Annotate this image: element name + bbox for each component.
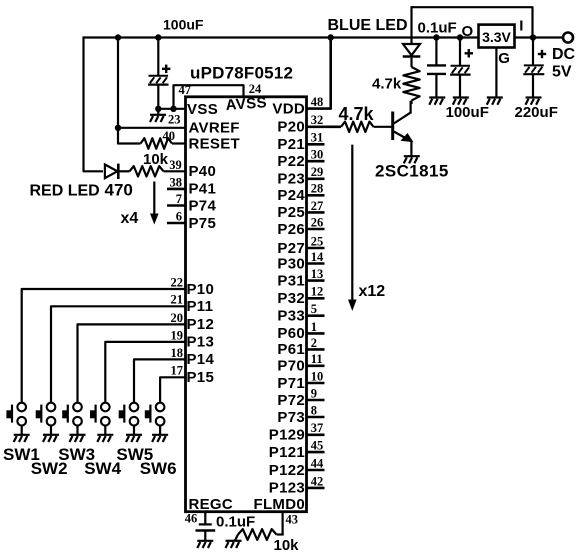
pin 5 label xyxy=(311,302,317,316)
svg-text:P61: P61 xyxy=(277,341,305,358)
svg-text:AVSS: AVSS xyxy=(225,94,267,114)
pin stub P21 (31) xyxy=(307,143,325,146)
wire C1 top lead xyxy=(157,38,159,77)
pin 19 label xyxy=(171,328,184,342)
svg-text:P13: P13 xyxy=(187,334,215,351)
svg-text:40: 40 xyxy=(163,129,176,143)
ground C2 xyxy=(429,98,445,105)
label I xyxy=(519,18,523,35)
wire P15 to SW xyxy=(160,377,185,403)
ground SW5 xyxy=(126,435,142,442)
svg-text:23: 23 xyxy=(168,113,181,127)
switch SW6 xyxy=(145,403,165,435)
svg-text:P121: P121 xyxy=(269,444,305,461)
label P74 xyxy=(189,197,217,214)
switch SW3 xyxy=(62,403,82,435)
svg-text:P24: P24 xyxy=(277,187,305,204)
label AVSS xyxy=(225,94,267,114)
pin stub P26 (26) xyxy=(307,228,325,231)
pin 9 label xyxy=(311,386,317,400)
svg-text:P27: P27 xyxy=(277,240,305,257)
label P14 xyxy=(187,351,215,368)
wire rail left drop xyxy=(84,36,104,171)
svg-text:P129: P129 xyxy=(269,427,305,444)
label P41 xyxy=(189,181,217,198)
svg-text:DC: DC xyxy=(552,46,576,63)
pin 18 label xyxy=(171,346,184,360)
svg-text:P32: P32 xyxy=(277,290,305,307)
svg-text:0.1uF: 0.1uF xyxy=(418,20,457,37)
label RESET xyxy=(189,135,241,152)
svg-text:48: 48 xyxy=(311,95,324,109)
pin stub P31 (13) xyxy=(307,279,325,282)
wire 5V to DC jack xyxy=(515,36,563,38)
svg-text:BLUE LED: BLUE LED xyxy=(328,17,408,34)
label P30 xyxy=(277,255,305,272)
svg-text:P22: P22 xyxy=(277,153,305,170)
capacitor C3 100uF polarized xyxy=(450,66,471,75)
wire P11 to SW xyxy=(51,306,186,403)
label P24 xyxy=(277,187,305,204)
svg-text:P31: P31 xyxy=(277,272,305,289)
IC U1 uPD78F0512 body xyxy=(186,97,307,512)
wire P13 to SW xyxy=(105,342,185,403)
svg-text:4.7k: 4.7k xyxy=(339,104,375,124)
wire C2 bottom lead xyxy=(435,74,437,97)
svg-text:P73: P73 xyxy=(277,409,305,426)
svg-text:9: 9 xyxy=(311,386,317,400)
pin stub P129 (37) xyxy=(307,433,325,436)
ground C1/VSS xyxy=(150,115,166,122)
label 0.1uF bottom xyxy=(216,513,255,530)
wire C3 bottom lead xyxy=(459,75,461,98)
svg-text:19: 19 xyxy=(171,328,184,342)
svg-text:220uF: 220uF xyxy=(515,104,558,121)
svg-text:I: I xyxy=(519,18,523,35)
wire RESET to chip xyxy=(172,142,186,144)
svg-text:44: 44 xyxy=(311,456,324,470)
junction rail 100uF C1 xyxy=(155,34,161,40)
wire C2 top lead xyxy=(435,38,437,65)
pin stub P61 (2) xyxy=(307,348,325,351)
svg-text:RED LED: RED LED xyxy=(30,183,100,200)
label P72 xyxy=(277,392,305,409)
svg-text:2: 2 xyxy=(311,336,317,350)
svg-text:P123: P123 xyxy=(269,480,305,497)
svg-text:P20: P20 xyxy=(277,119,305,136)
svg-text:P60: P60 xyxy=(277,325,305,342)
label 220uF xyxy=(515,104,558,121)
svg-text:25: 25 xyxy=(311,234,324,248)
junction VSS-C1 xyxy=(155,106,161,112)
wire 5V bracket xyxy=(412,7,533,37)
label VSS xyxy=(187,101,218,118)
pin stub VDD (48) riser xyxy=(307,38,331,109)
label P32 xyxy=(277,290,305,307)
pin stub P60 (1) xyxy=(307,332,325,335)
wire D2 to R4.7k xyxy=(410,58,412,67)
svg-text:P25: P25 xyxy=(277,204,305,221)
capacitor C1 plus xyxy=(162,65,170,73)
svg-text:3.3V: 3.3V xyxy=(482,29,511,45)
svg-text:x4: x4 xyxy=(121,210,139,227)
label 470 xyxy=(105,181,133,200)
wire U2 ground pin xyxy=(495,48,497,98)
svg-text:5V: 5V xyxy=(552,64,572,81)
ground SW4 xyxy=(97,435,113,442)
regulator U2 3.3V box xyxy=(479,25,515,48)
junction rail 100uF C3 xyxy=(457,34,463,40)
pin 44 label xyxy=(311,456,324,470)
arrow x12 xyxy=(348,145,357,311)
svg-text:P70: P70 xyxy=(277,358,305,375)
capacitor C4 0.1uF xyxy=(196,524,216,530)
label P75 xyxy=(189,215,217,232)
capacitor C5 220uF polarized xyxy=(523,65,544,74)
svg-text:P12: P12 xyxy=(187,316,215,333)
svg-text:G: G xyxy=(498,50,510,67)
label P10 xyxy=(187,281,215,298)
IC U1 title uPD78F0512 xyxy=(190,64,293,83)
wire R to base xyxy=(374,126,393,128)
pin stub P33 (5) xyxy=(307,314,325,317)
svg-text:46: 46 xyxy=(185,511,198,525)
wire rail to RESET xyxy=(118,38,141,144)
label 3.3V xyxy=(482,29,511,45)
label G xyxy=(498,50,510,67)
pin stub P70 (11) xyxy=(307,364,325,367)
label P73 xyxy=(277,409,305,426)
svg-text:5: 5 xyxy=(311,302,317,316)
svg-text:32: 32 xyxy=(311,113,324,127)
svg-text:VDD: VDD xyxy=(272,100,305,117)
label SW1 xyxy=(3,445,40,464)
label FLMD0 xyxy=(254,496,306,513)
wire AVREF xyxy=(118,127,186,129)
junction rail VDD xyxy=(328,34,334,40)
resistor R-P20 4.7k xyxy=(341,122,374,132)
pin stub P27 (25) xyxy=(307,247,325,250)
arrow x4 xyxy=(150,182,159,225)
pin stub P75 (6) xyxy=(167,222,186,225)
label SW3 xyxy=(58,445,95,464)
label x4 xyxy=(121,210,139,227)
svg-text:45: 45 xyxy=(311,439,324,453)
label P20 xyxy=(277,119,305,136)
transistor Q1 2SC1815 xyxy=(393,101,414,156)
diode D1 RED LED xyxy=(105,164,118,179)
pin 43 label xyxy=(286,512,299,526)
label P61 xyxy=(277,341,305,358)
pin 23 label xyxy=(168,113,181,127)
pin 12 label xyxy=(311,285,324,299)
pin 28 label xyxy=(311,182,324,196)
svg-text:P33: P33 xyxy=(277,308,305,325)
pin 42 label xyxy=(311,474,324,488)
svg-text:30: 30 xyxy=(311,148,324,162)
ground U2 xyxy=(487,98,503,105)
svg-text:P74: P74 xyxy=(189,197,217,214)
label 10k bottom xyxy=(274,537,300,554)
wire C1 bottom lead xyxy=(157,85,159,114)
svg-text:2SC1815: 2SC1815 xyxy=(375,162,449,181)
svg-text:31: 31 xyxy=(311,131,324,145)
svg-text:4.7k: 4.7k xyxy=(372,76,402,93)
svg-text:AVREF: AVREF xyxy=(189,120,240,137)
svg-text:P23: P23 xyxy=(277,171,305,188)
svg-text:13: 13 xyxy=(311,267,324,281)
label P122 xyxy=(269,462,305,479)
switch SW2 xyxy=(36,403,56,435)
label AVREF xyxy=(189,120,240,137)
pin 45 label xyxy=(311,439,324,453)
label P23 xyxy=(277,171,305,188)
svg-text:P14: P14 xyxy=(187,351,215,368)
svg-text:21: 21 xyxy=(171,293,184,307)
label BLUE LED xyxy=(328,17,408,34)
label 4.7k vertical xyxy=(372,76,402,93)
pin stub P24 (28) xyxy=(307,194,325,197)
pin 1 label xyxy=(311,320,317,334)
svg-text:29: 29 xyxy=(311,165,324,179)
ground C3 xyxy=(453,98,469,105)
label VDD xyxy=(272,100,305,117)
pin stub REGC (46) xyxy=(204,512,206,524)
svg-text:10k: 10k xyxy=(274,537,300,554)
svg-text:11: 11 xyxy=(311,352,323,366)
pin stub P22 (30) xyxy=(307,160,325,163)
svg-text:7: 7 xyxy=(176,192,182,206)
junction rail x118 xyxy=(115,34,121,40)
label P12 xyxy=(187,316,215,333)
resistor R-LED 4.7k xyxy=(403,67,419,101)
wire P10 to SW xyxy=(22,289,186,403)
label 5V xyxy=(552,64,572,81)
pin 27 label xyxy=(311,199,324,213)
ground R-FLMD0 xyxy=(226,541,242,548)
wire C4 to ground xyxy=(204,531,206,541)
pin 29 label xyxy=(311,165,324,179)
pin stub P25 (27) xyxy=(307,211,325,214)
resistor R-RESET 10k xyxy=(141,138,173,149)
diode D2 BLUE LED xyxy=(403,44,421,57)
svg-text:P11: P11 xyxy=(187,298,214,315)
ground SW3 xyxy=(70,435,86,442)
label DC xyxy=(552,46,576,63)
svg-text:20: 20 xyxy=(171,311,184,325)
wire 3.3V rail xyxy=(84,36,479,38)
pin stub P41 (38) xyxy=(167,188,186,191)
svg-text:6: 6 xyxy=(176,209,182,223)
pin stub P71 (10) xyxy=(307,382,325,385)
svg-text:SW4: SW4 xyxy=(84,459,121,478)
ground Q1 emitter xyxy=(404,156,420,163)
label P15 xyxy=(187,369,215,386)
ground SW2 xyxy=(43,435,59,442)
svg-text:22: 22 xyxy=(171,275,184,289)
pin 17 label xyxy=(171,364,184,378)
pin 21 label xyxy=(171,293,184,307)
capacitor C2 0.1uF xyxy=(427,65,446,74)
resistor R-FLMD0 10k xyxy=(235,529,284,540)
ground C4 xyxy=(197,541,213,548)
pin 46 label xyxy=(185,511,198,525)
wire C3 top lead xyxy=(459,38,461,67)
svg-text:P15: P15 xyxy=(187,369,215,386)
svg-text:100uF: 100uF xyxy=(163,17,204,33)
pin 10 label xyxy=(311,369,324,383)
wire C5 bottom lead xyxy=(532,74,534,97)
svg-text:SW2: SW2 xyxy=(31,459,68,478)
pin 30 label xyxy=(311,148,324,162)
svg-text:37: 37 xyxy=(311,421,324,435)
pin stub P121 (45) xyxy=(307,451,325,454)
svg-text:12: 12 xyxy=(311,285,324,299)
svg-text:17: 17 xyxy=(171,364,184,378)
svg-text:P75: P75 xyxy=(189,215,217,232)
svg-text:18: 18 xyxy=(171,346,184,360)
label O xyxy=(462,23,474,40)
svg-text:10: 10 xyxy=(311,369,324,383)
label P71 xyxy=(277,375,305,392)
ground SW1 xyxy=(14,435,30,442)
label P33 xyxy=(277,308,305,325)
label RED LED xyxy=(30,183,100,200)
svg-text:0.1uF: 0.1uF xyxy=(216,513,255,530)
svg-text:47: 47 xyxy=(179,83,192,97)
label SW2 xyxy=(31,459,68,478)
pin 14 label xyxy=(311,250,324,264)
pin stub P73 (8) xyxy=(307,416,325,419)
pin 26 label xyxy=(311,215,324,229)
wire LED feed xyxy=(410,6,412,44)
svg-text:26: 26 xyxy=(311,215,324,229)
label P70 xyxy=(277,358,305,375)
switch SW1 xyxy=(6,403,26,435)
label P25 xyxy=(277,204,305,221)
wire R470 to chip xyxy=(164,170,186,172)
wire VSS pin 47 xyxy=(156,108,186,110)
junction rail 0.1uF xyxy=(433,34,439,40)
label P121 xyxy=(269,444,305,461)
switch SW5 xyxy=(119,403,139,435)
svg-text:SW6: SW6 xyxy=(140,459,177,478)
pin stub P72 (9) xyxy=(307,399,325,402)
svg-text:14: 14 xyxy=(311,250,324,264)
junction bracket-VSS xyxy=(170,106,176,112)
wire P12 to SW xyxy=(78,324,186,403)
junction rail 220uF xyxy=(530,34,536,40)
label 4.7k base xyxy=(339,104,375,124)
label P13 xyxy=(187,334,215,351)
label x12 xyxy=(359,283,386,300)
svg-text:P10: P10 xyxy=(187,281,215,298)
wire R to collector xyxy=(410,101,412,105)
wire VSS-AVSS bracket xyxy=(174,85,244,109)
pin 47 label xyxy=(179,83,192,97)
junction AVREF xyxy=(115,125,121,131)
pin stub P122 (44) xyxy=(307,469,325,472)
svg-text:39: 39 xyxy=(169,158,182,172)
pin stub P30 (14) xyxy=(307,262,325,265)
svg-text:P71: P71 xyxy=(277,375,305,392)
label P60 xyxy=(277,325,305,342)
wire D1 to R470 xyxy=(120,170,130,172)
svg-text:1: 1 xyxy=(311,320,317,334)
svg-text:P40: P40 xyxy=(189,163,217,180)
pin stub FLMD0 (43) xyxy=(282,512,284,535)
svg-text:10k: 10k xyxy=(143,151,169,168)
svg-text:42: 42 xyxy=(311,474,324,488)
wire P14 to SW xyxy=(134,359,186,403)
label 100uF right xyxy=(446,104,489,121)
label C1 100uF xyxy=(163,17,204,33)
label P31 xyxy=(277,272,305,289)
pin 13 label xyxy=(311,267,324,281)
label 2SC1815 xyxy=(375,162,449,181)
pin stub P23 (29) xyxy=(307,178,325,181)
svg-text:470: 470 xyxy=(105,181,133,200)
svg-text:RESET: RESET xyxy=(189,135,241,152)
svg-text:100uF: 100uF xyxy=(446,104,489,121)
label 10k reset xyxy=(143,151,169,168)
pin stub P74 (7) xyxy=(167,204,186,207)
pin stub P20 (32) xyxy=(307,126,342,129)
label P129 xyxy=(269,427,305,444)
svg-text:P41: P41 xyxy=(189,181,217,198)
svg-text:uPD78F0512: uPD78F0512 xyxy=(190,64,293,83)
svg-text:x12: x12 xyxy=(359,283,386,300)
ground C5 xyxy=(526,98,542,105)
svg-text:38: 38 xyxy=(170,175,183,189)
pin 37 label xyxy=(311,421,324,435)
label REGC xyxy=(189,496,234,513)
label SW6 xyxy=(140,459,177,478)
svg-text:P122: P122 xyxy=(269,462,305,479)
label P26 xyxy=(277,221,305,238)
capacitor C5 plus xyxy=(538,50,546,58)
node DC input xyxy=(563,33,573,43)
pin 31 label xyxy=(311,131,324,145)
pin 2 label xyxy=(311,336,317,350)
label SW4 xyxy=(84,459,121,478)
label SW5 xyxy=(116,445,153,464)
svg-text:P30: P30 xyxy=(277,255,305,272)
svg-text:27: 27 xyxy=(311,199,324,213)
pin 22 label xyxy=(171,275,184,289)
label P21 xyxy=(277,136,305,153)
pin 24 label xyxy=(249,82,262,96)
pin stub P32 (12) xyxy=(307,297,325,300)
capacitor C3 plus xyxy=(465,49,473,57)
svg-text:8: 8 xyxy=(311,403,317,417)
ground SW6 xyxy=(152,435,168,442)
label P123 xyxy=(269,480,305,497)
pin 6 label xyxy=(176,209,182,223)
svg-text:P21: P21 xyxy=(277,136,305,153)
svg-text:FLMD0: FLMD0 xyxy=(254,496,306,513)
label 0.1uF top xyxy=(418,20,457,37)
svg-text:28: 28 xyxy=(311,182,324,196)
pin 38 label xyxy=(170,175,183,189)
wire C5 top lead xyxy=(532,38,534,67)
pin 32 label xyxy=(311,113,324,127)
capacitor C1 100uF polarized xyxy=(148,76,169,85)
pin 7 label xyxy=(176,192,182,206)
label P27 xyxy=(277,240,305,257)
pin 39 label xyxy=(169,158,182,172)
svg-text:43: 43 xyxy=(286,512,299,526)
